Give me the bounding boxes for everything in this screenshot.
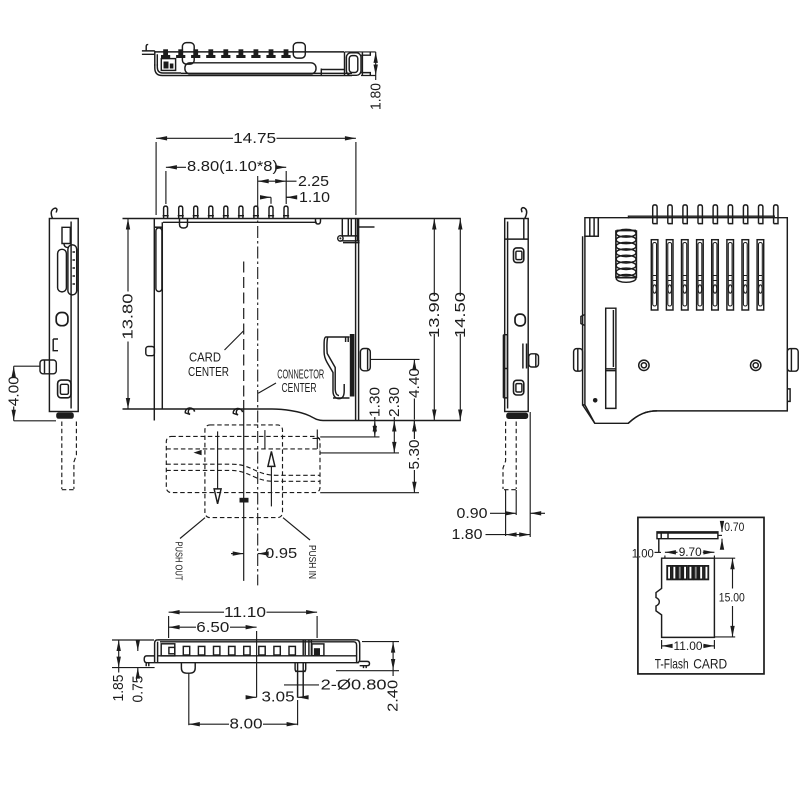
rivet circle left	[639, 360, 649, 370]
svg-text:13.80: 13.80	[120, 294, 137, 340]
card front outline with notch	[656, 558, 714, 637]
top-left tab block	[585, 218, 598, 237]
body outline	[585, 218, 787, 424]
card-stop latch arm (right middle)	[324, 337, 349, 399]
dimension 1.30	[374, 421, 376, 437]
dimension 1.80	[375, 52, 377, 76]
svg-text:0.90: 0.90	[457, 505, 488, 522]
svg-text:1.85: 1.85	[110, 675, 127, 702]
left mount tab	[146, 347, 155, 356]
dimension 2.25	[258, 180, 287, 182]
left latch pill	[156, 228, 162, 292]
bottom edge	[155, 662, 359, 664]
left edge notch	[581, 315, 585, 326]
dimension 6.50	[169, 626, 196, 628]
svg-text:1.80: 1.80	[367, 83, 384, 110]
svg-text:4.00: 4.00	[5, 376, 22, 406]
right divider lines	[303, 640, 311, 655]
step edge vertical	[313, 430, 321, 449]
left inner contact box	[161, 59, 175, 71]
9 contact pins on top edge	[163, 206, 290, 218]
svg-text:CENTER: CENTER	[282, 381, 317, 395]
dimension 0.95	[231, 553, 244, 555]
right mount tab	[787, 349, 798, 372]
upper window	[514, 248, 524, 263]
svg-text:8.00: 8.00	[230, 716, 263, 733]
clip foot lines	[341, 241, 360, 243]
svg-text:CENTER: CENTER	[188, 365, 229, 379]
right clip (staple)	[346, 53, 361, 76]
inner left line	[507, 222, 509, 409]
inner top line	[163, 221, 317, 223]
svg-text:CARD: CARD	[189, 351, 221, 365]
dimension 3.05	[248, 696, 257, 698]
body bottom edge and right step (S-curve)	[123, 409, 461, 421]
dashed card outline (inner position)	[205, 425, 283, 518]
top/bottom edge extensions to dimension	[345, 52, 376, 76]
svg-text:15.00: 15.00	[719, 590, 745, 604]
connector center line (dash-dot)	[257, 176, 259, 206]
dimension 5.30	[413, 421, 415, 440]
right spring bar	[68, 245, 77, 295]
short guide line	[264, 430, 266, 449]
8 pin squares	[183, 646, 295, 655]
leg 1	[181, 663, 195, 673]
detail border box	[638, 517, 764, 674]
right bracket	[361, 52, 370, 76]
svg-text:8.80(1.10*8): 8.80(1.10*8)	[187, 158, 278, 175]
top inner box	[62, 227, 70, 247]
small round detent below clip	[338, 236, 343, 241]
lower window	[514, 380, 524, 395]
middle tab	[56, 313, 68, 326]
left flange foot	[144, 656, 154, 663]
inner right line	[70, 222, 72, 409]
svg-text:CONNECTOR: CONNECTOR	[277, 367, 324, 381]
tall clip 1	[182, 43, 194, 65]
svg-text:1.30: 1.30	[366, 387, 383, 417]
bottom foot	[506, 413, 528, 419]
dashed card tail	[61, 422, 63, 490]
left long slot	[606, 308, 616, 408]
top hook	[521, 208, 526, 219]
dashed card outline (outer position)	[166, 436, 320, 492]
small pin dot	[593, 398, 598, 403]
spring coil	[616, 229, 637, 282]
svg-text:PUSH IN: PUSH IN	[306, 545, 318, 579]
8 contact slots	[651, 240, 763, 310]
small U-notch on top edge	[316, 219, 321, 225]
body right end vertical	[344, 52, 346, 76]
dimension 1.10	[261, 196, 271, 198]
top hook	[51, 208, 57, 218]
rivet circle right	[751, 360, 761, 370]
body top edge with left/right extensions	[123, 218, 461, 220]
small left arrow marker	[194, 450, 202, 455]
dimension 2.30	[393, 421, 395, 453]
dimension 8.80(1.10*8)	[166, 166, 186, 168]
dimension 0.70	[718, 534, 722, 536]
inner shell band	[185, 63, 316, 74]
short line right of top corner	[359, 226, 375, 228]
push-in arrow (up, hollow)	[270, 466, 272, 506]
svg-text:PUSH OUT: PUSH OUT	[172, 542, 184, 581]
solid extension line from body right edge	[529, 412, 531, 537]
body outline	[49, 219, 78, 412]
left latch pill	[58, 249, 67, 292]
dimension 4.00 ext lines	[14, 366, 56, 421]
dashed guide line	[166, 448, 320, 450]
right tab assembly	[523, 344, 527, 369]
9 pins on top	[653, 205, 778, 224]
svg-text:2-Ø0.80: 2-Ø0.80	[321, 676, 387, 693]
body left edge	[154, 219, 162, 421]
small stop flag	[240, 498, 249, 503]
body right edge (double)	[356, 219, 359, 421]
bottom latch curl 2	[233, 408, 242, 414]
dimension 11.00	[662, 640, 715, 649]
dimension 8.00	[189, 723, 229, 725]
svg-text:0.75: 0.75	[129, 676, 146, 703]
mount tab (left)	[40, 360, 56, 374]
bottom S-curve inner line	[628, 411, 657, 423]
side mount tab (right)	[360, 349, 370, 371]
extension stubs	[506, 490, 517, 536]
dashed card tail	[503, 422, 506, 490]
left mount tab	[574, 349, 583, 372]
top-left corner step	[154, 226, 162, 228]
dimension 13.80	[127, 219, 129, 292]
push-out arrow (down, hollow)	[217, 431, 219, 489]
svg-text:T-Flash: T-Flash	[655, 655, 689, 671]
svg-text:2.40: 2.40	[385, 680, 402, 712]
leader to PUSH OUT	[180, 518, 205, 539]
body bottom edge	[181, 73, 352, 75]
body outline	[505, 219, 529, 412]
top-right clip box	[342, 219, 357, 242]
bottom latch curl 1	[185, 408, 194, 414]
dimension 15.00	[714, 558, 735, 637]
svg-text:0.70: 0.70	[724, 520, 744, 534]
dimension 13.90	[433, 219, 435, 297]
right step details	[321, 69, 344, 76]
dimension 14.75	[156, 137, 233, 139]
second top line	[629, 216, 776, 218]
dimension 2.40	[336, 642, 399, 671]
inner shelf line	[158, 655, 357, 657]
middle pin tab	[515, 314, 525, 326]
body top edge (double)	[158, 640, 357, 642]
left edge slots	[503, 335, 507, 398]
dimension 14.50	[459, 219, 461, 297]
svg-text:2.30: 2.30	[386, 387, 403, 417]
left end cap	[155, 640, 158, 663]
svg-text:1.00: 1.00	[632, 546, 654, 560]
left lip step	[658, 539, 660, 553]
dashed flow curve 2	[166, 470, 320, 481]
right contact box	[312, 644, 324, 656]
dimension 9.70	[665, 551, 678, 553]
small hook below top edge left	[180, 219, 188, 229]
left foot (L-shape)	[155, 64, 181, 76]
svg-text:14.75: 14.75	[233, 130, 276, 147]
leader to PUSH IN	[283, 518, 310, 540]
dashed flow curve 1	[166, 464, 320, 475]
dimension 4.00	[13, 366, 15, 376]
dimension 1.85	[112, 640, 155, 668]
svg-text:1.80: 1.80	[452, 526, 483, 543]
dimension 11.10	[169, 611, 224, 613]
top box	[505, 219, 529, 239]
card side view bar	[657, 532, 718, 539]
small upward hook on bracket	[146, 45, 148, 51]
svg-text:2.25: 2.25	[298, 173, 329, 190]
svg-text:9.70: 9.70	[679, 545, 702, 559]
tall clip 2	[293, 43, 305, 59]
svg-text:5.30: 5.30	[406, 440, 423, 470]
svg-text:14.50: 14.50	[452, 292, 469, 338]
svg-text:11.00: 11.00	[674, 639, 703, 653]
bottom foot	[56, 412, 74, 418]
right flange foot	[360, 661, 370, 665]
8 contact pads	[667, 566, 708, 580]
svg-text:1.10: 1.10	[299, 189, 330, 206]
svg-text:0.95: 0.95	[265, 545, 297, 562]
svg-text:CARD: CARD	[693, 655, 727, 671]
9 solder pins (filled)	[161, 49, 291, 58]
svg-text:3.05: 3.05	[262, 688, 295, 705]
dimension 0.75	[137, 644, 139, 652]
left contact box	[161, 644, 175, 656]
svg-text:6.50: 6.50	[196, 619, 229, 636]
svg-text:13.90: 13.90	[426, 292, 443, 338]
right end cap	[354, 640, 360, 663]
top-left corner step	[154, 226, 162, 228]
card center line	[243, 262, 245, 401]
body top edge	[155, 51, 344, 53]
label 2-O0.80 leader	[284, 684, 319, 686]
lower latch window	[58, 380, 71, 398]
left mount bracket	[142, 51, 157, 66]
small edge step	[53, 339, 58, 351]
svg-text:11.10: 11.10	[224, 604, 266, 621]
svg-text:4.40: 4.40	[406, 368, 423, 398]
dimension 4.40	[370, 358, 419, 360]
right edge notch marks	[787, 389, 790, 402]
leg 2 (2 x round pins)	[295, 663, 306, 698]
